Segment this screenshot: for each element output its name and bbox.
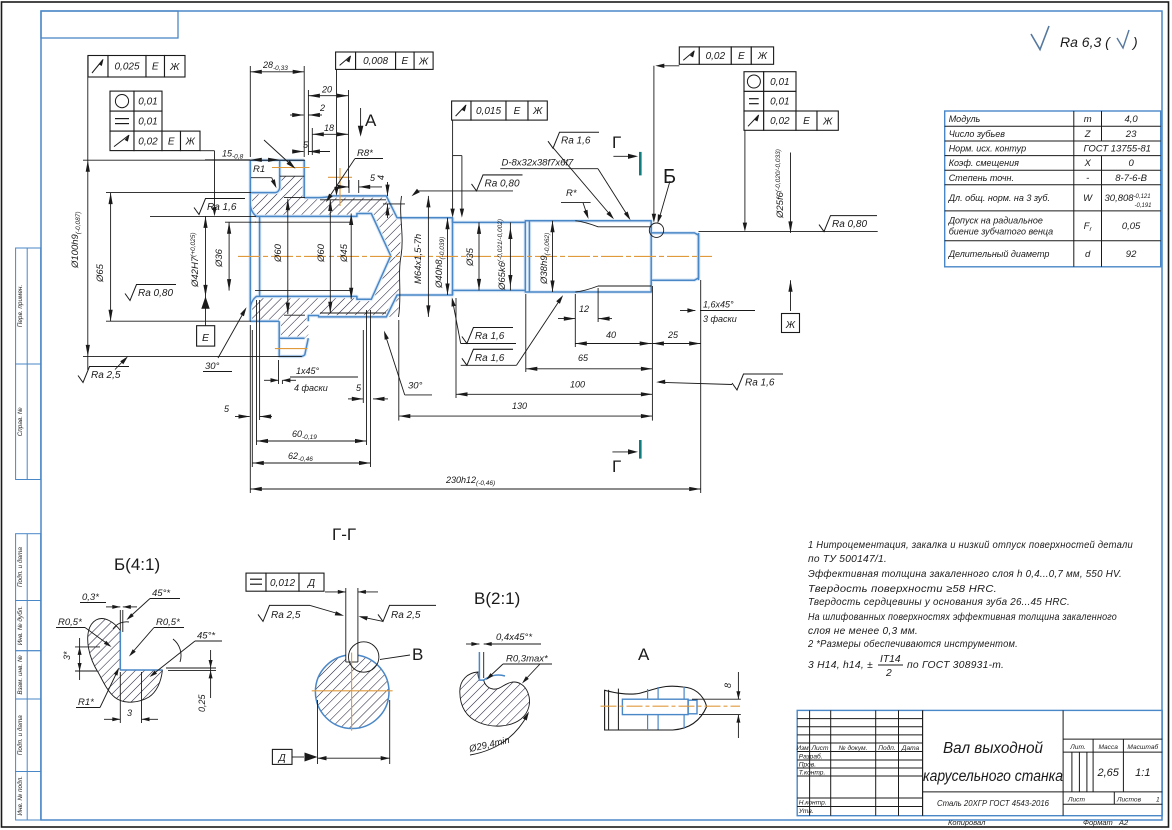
svg-text:На шлифованных поверхностях эф: На шлифованных поверхностях эффективная …	[808, 611, 1117, 623]
general roughness Ra 6,3	[1031, 26, 1049, 50]
svg-text:0,25: 0,25	[197, 693, 207, 712]
svg-text:Степень точн.: Степень точн.	[949, 173, 1014, 183]
leader stack2 to D38 bottom	[517, 298, 562, 366]
dim 4 thread step	[387, 182, 389, 196]
dim D60 first	[284, 197, 305, 199]
svg-text:А: А	[365, 111, 377, 130]
tolerance frame parallelism 0,01 right	[744, 91, 764, 111]
svg-text:Перв. примен.: Перв. примен.	[17, 285, 24, 327]
svg-text:X: X	[1083, 158, 1091, 169]
G-G Ra 2,5 right	[378, 605, 436, 621]
svg-text:В(2:1): В(2:1)	[474, 589, 520, 608]
svg-text:4,0: 4,0	[1124, 114, 1138, 125]
svg-text:23: 23	[1125, 129, 1137, 140]
V blob	[460, 672, 530, 726]
title block	[797, 710, 1162, 815]
dim D65	[110, 193, 112, 322]
svg-text:Ø60: Ø60	[316, 243, 327, 263]
inner D36 line bottom	[255, 290, 352, 292]
svg-text:Разраб.: Разраб.	[799, 753, 823, 761]
svg-text:2,65: 2,65	[1096, 767, 1119, 779]
dim 5 bore depth	[235, 416, 250, 418]
A keyway	[622, 699, 688, 714]
svg-text:биение зубчатого венца: биение зубчатого венца	[949, 226, 1054, 236]
svg-text:8-7-6-B: 8-7-6-B	[1115, 173, 1147, 184]
svg-text:12: 12	[579, 304, 589, 314]
dim D42H7 with datum E	[205, 216, 207, 325]
svg-text:0,01: 0,01	[770, 77, 789, 88]
svg-text:0,01: 0,01	[770, 97, 789, 108]
side stamp box Справ. №	[16, 364, 41, 480]
svg-text:3: 3	[127, 708, 132, 718]
tolerance frame runout 0,015 E	[452, 101, 471, 120]
svg-text:Модуль: Модуль	[949, 114, 981, 124]
svg-text:R8*: R8*	[357, 148, 373, 159]
G-G Ra 2,5 left	[258, 605, 310, 621]
svg-text:3 H14, h14, ±: 3 H14, h14, ±	[808, 660, 873, 671]
groove detail circle B	[649, 223, 663, 237]
svg-text:№ докум.: № докум.	[838, 744, 867, 752]
side stamp box Подп. и дата	[16, 534, 41, 601]
section mark G bottom	[639, 440, 642, 459]
svg-text:Ra 2,5: Ra 2,5	[271, 610, 301, 621]
svg-text:Б(4:1): Б(4:1)	[114, 555, 160, 574]
svg-text:30°: 30°	[408, 381, 423, 392]
dim 100	[455, 298, 457, 398]
svg-text:m: m	[1084, 114, 1092, 125]
svg-text:ГОСТ 13755-81: ГОСТ 13755-81	[1084, 144, 1151, 155]
svg-text:слоя не менее 0,3 мм.: слоя не менее 0,3 мм.	[808, 626, 918, 637]
svg-text:Д: Д	[278, 753, 286, 764]
inner D36 line top	[255, 221, 352, 223]
svg-text:Сталь 20ХГР ГОСТ 4543-2016: Сталь 20ХГР ГОСТ 4543-2016	[937, 798, 1049, 808]
svg-text:E: E	[514, 106, 521, 117]
dim 0,25	[166, 667, 216, 669]
dim 65	[525, 294, 527, 372]
svg-text:Ra 6,3 (: Ra 6,3 (	[1060, 34, 1111, 50]
svg-text:Т.контр.: Т.контр.	[799, 770, 826, 777]
svg-text:Ø35: Ø35	[465, 247, 476, 267]
svg-text:0,02: 0,02	[770, 116, 790, 127]
svg-text:R0,5*: R0,5*	[58, 617, 82, 628]
svg-text:Изм.: Изм.	[796, 745, 810, 752]
svg-text:Допуск на радиальное: Допуск на радиальное	[948, 215, 1043, 225]
svg-text:20: 20	[321, 85, 332, 95]
svg-text:Коэф. смещения: Коэф. смещения	[949, 158, 1019, 168]
dim 18	[311, 128, 313, 155]
dim D65k6	[509, 222, 511, 290]
svg-text:Вал выходной: Вал выходной	[943, 740, 1043, 757]
svg-text:W: W	[1083, 193, 1093, 204]
svg-text:R1*: R1*	[78, 697, 94, 708]
side stamp box Инв. № дубл.	[16, 601, 41, 651]
svg-text:Дл. общ. норм. на 3 зуб.: Дл. общ. норм. на 3 зуб.	[948, 193, 1050, 203]
G-G keyway slot	[346, 654, 358, 662]
svg-text:В: В	[412, 645, 423, 664]
svg-text:0,05: 0,05	[1122, 221, 1141, 232]
svg-text:Ж: Ж	[185, 136, 196, 147]
tolerance frame runout 0,02 E right2	[744, 111, 764, 130]
main axis centerline	[238, 255, 712, 257]
svg-text:65: 65	[578, 353, 589, 363]
svg-text:Эффективная толщина закаленног: Эффективная толщина закаленного слоя h 0…	[808, 568, 1122, 580]
roughness Ra080 M64	[472, 175, 523, 191]
spline root runout top	[575, 221, 651, 227]
gear rim right face top	[303, 160, 305, 197]
svg-text:R0,5*: R0,5*	[156, 617, 180, 628]
svg-text:R1: R1	[253, 164, 265, 175]
svg-text:3 фаски: 3 фаски	[703, 314, 737, 324]
svg-text:0,01: 0,01	[138, 97, 157, 108]
A outline	[605, 686, 707, 730]
dim 28-0.33	[249, 66, 251, 157]
tolerance frame roundness 0,01 right	[744, 72, 764, 92]
svg-text:Листов: Листов	[1116, 797, 1142, 804]
side stamp box Инв. № подл.	[16, 772, 41, 821]
svg-text:Подп. и дата: Подп. и дата	[16, 547, 24, 587]
svg-text:0,015: 0,015	[476, 106, 501, 117]
svg-text:1,6x45°: 1,6x45°	[703, 300, 734, 310]
detail B machined edges	[119, 630, 121, 670]
svg-text:Формат: Формат	[1083, 818, 1113, 827]
svg-text:0: 0	[1128, 158, 1134, 169]
svg-text:1:1: 1:1	[1135, 767, 1150, 779]
svg-text:Масштаб: Масштаб	[1127, 743, 1158, 751]
svg-text:Ra 0,80: Ra 0,80	[832, 219, 867, 230]
roughness Ra080 bore	[125, 285, 176, 301]
svg-text:d: d	[1085, 249, 1091, 260]
svg-text:Лит.: Лит.	[1069, 744, 1086, 751]
leader Ra16 mid	[554, 148, 613, 217]
svg-text:Г-Г: Г-Г	[332, 525, 356, 544]
svg-text:Лист: Лист	[811, 745, 829, 752]
dim 1,6x45 3 faski	[680, 310, 695, 312]
step faces D35/D38	[524, 222, 526, 290]
svg-text:Делительный диаметр: Делительный диаметр	[948, 249, 1050, 259]
svg-text:E: E	[202, 332, 210, 344]
dim 15-0.8	[205, 159, 250, 161]
svg-text:карусельного станка: карусельного станка	[923, 768, 1063, 785]
bore top line	[250, 205, 390, 255]
leader 0,02 frame	[658, 65, 679, 67]
svg-text:3*: 3*	[62, 651, 72, 660]
dim 5 thread relief	[348, 398, 363, 400]
svg-text:Ra 0,80: Ra 0,80	[485, 178, 520, 189]
svg-text:92: 92	[1126, 249, 1137, 260]
svg-text:30°: 30°	[205, 361, 220, 372]
svg-text:Копировал: Копировал	[948, 818, 986, 827]
svg-text:Ra 2,5: Ra 2,5	[391, 610, 421, 621]
V dim 0,4x45	[466, 643, 479, 645]
svg-text:E: E	[402, 56, 409, 67]
svg-text:0,3*: 0,3*	[82, 592, 99, 603]
side stamp box Перв. примен.	[16, 248, 41, 364]
top-left corner box	[41, 11, 178, 38]
leader from 0,01 block	[200, 150, 215, 152]
thread minor line bottom	[320, 312, 386, 314]
svg-text:А: А	[638, 645, 650, 664]
svg-text:R*: R*	[566, 188, 577, 199]
svg-text:Ra 0,80: Ra 0,80	[138, 288, 173, 299]
svg-text:Г: Г	[612, 457, 621, 476]
svg-text:Число зубьев: Число зубьев	[949, 129, 1006, 139]
svg-text:Утв.: Утв.	[798, 808, 814, 815]
svg-text:1 Нитроцементация, закалка и н: 1 Нитроцементация, закалка и низкий отпу…	[808, 540, 1133, 551]
dim 60-0.19	[256, 300, 258, 445]
svg-text:0,012: 0,012	[270, 578, 295, 589]
svg-text:Ж: Ж	[532, 106, 543, 117]
svg-text:Ra 1,6: Ra 1,6	[207, 202, 237, 213]
leader Ra25	[115, 359, 126, 370]
dim D60 second	[329, 200, 331, 314]
svg-text:25: 25	[667, 330, 679, 340]
leader Ra16 top-left to pitch line	[264, 140, 293, 167]
dim D45	[350, 214, 352, 300]
dim 0,3*	[106, 606, 120, 608]
svg-text:Ra 1,6: Ra 1,6	[475, 353, 505, 364]
svg-text:100: 100	[570, 380, 585, 390]
gear pitch line top	[272, 167, 310, 169]
leader 0,008 frame	[336, 69, 338, 192]
dim 230h12	[249, 325, 251, 493]
svg-text:1: 1	[1156, 797, 1160, 804]
G-G frame 0,012 D	[246, 573, 266, 591]
dim 130	[398, 320, 400, 421]
dim 20	[307, 90, 309, 155]
hatched upper wall of shaft section	[250, 176, 401, 256]
dim D25f6 with Zh box	[790, 153, 792, 233]
svg-text:Z: Z	[1084, 129, 1092, 140]
dim 25	[651, 343, 701, 345]
svg-text:Ra 2,5: Ra 2,5	[91, 370, 121, 381]
svg-text:2: 2	[885, 668, 892, 679]
dim 1x45 4 faski	[278, 360, 280, 384]
svg-text:M64x1,5-7h: M64x1,5-7h	[413, 234, 424, 284]
svg-text:IT14: IT14	[880, 654, 901, 665]
svg-text:8: 8	[723, 683, 733, 688]
leader right block	[744, 130, 746, 228]
section mark G top	[639, 152, 642, 176]
svg-text:по ТУ 500147/1.: по ТУ 500147/1.	[808, 554, 887, 565]
dim 5 thread top	[340, 186, 349, 188]
svg-text:Ж: Ж	[757, 51, 768, 62]
svg-text:130: 130	[512, 401, 527, 411]
gear root line top	[280, 175, 305, 177]
bore step D42/D36	[259, 216, 261, 296]
leader stack1 to D40 bottom	[453, 301, 461, 344]
dim 40	[575, 343, 651, 345]
svg-text:Г: Г	[612, 133, 621, 152]
svg-text:Ra 1,6: Ra 1,6	[475, 331, 505, 342]
step face spline end	[650, 227, 652, 286]
tolerance frame roundness 0,01	[110, 91, 134, 111]
svg-text:Ø45: Ø45	[339, 243, 350, 263]
svg-text:Ra 1,6: Ra 1,6	[745, 378, 775, 389]
svg-text:-: -	[1086, 173, 1089, 184]
roughness Ra25 left	[78, 367, 129, 383]
svg-text:Ж: Ж	[785, 320, 796, 331]
svg-text:0,02: 0,02	[138, 136, 158, 147]
svg-text:Ø65: Ø65	[95, 263, 106, 283]
dim D100h9	[87, 77, 89, 370]
svg-text:D-8x32x38f7x6f7: D-8x32x38f7x6f7	[502, 157, 575, 168]
thread minor line top	[320, 199, 386, 201]
svg-text:Твердость поверхности ≥58 HRC.: Твердость поверхности ≥58 HRC.	[808, 584, 997, 595]
tolerance frame runout 0,008 E	[336, 52, 356, 69]
svg-text:40: 40	[606, 330, 616, 340]
svg-text:Подп. и дата: Подп. и дата	[16, 715, 24, 755]
tolerance frame parallelism 0,01	[110, 111, 134, 131]
svg-text:Масса: Масса	[1098, 744, 1118, 751]
svg-text:Инв. № подл.: Инв. № подл.	[16, 776, 24, 816]
svg-text:E: E	[738, 51, 745, 62]
svg-text:Ø36: Ø36	[214, 248, 225, 268]
spline root runout bottom	[575, 286, 651, 292]
dim D35	[478, 222, 480, 290]
svg-text:по ГОСТ 308931-т.: по ГОСТ 308931-т.	[907, 660, 1004, 671]
dim 2	[290, 114, 304, 116]
A centerline	[601, 705, 741, 707]
svg-text:-0,191: -0,191	[1135, 203, 1152, 209]
dim 3 bottom	[119, 672, 121, 723]
left end face	[249, 160, 251, 321]
dim D40h8	[447, 218, 449, 295]
tolerance frame radial runout 0,025 E	[88, 56, 108, 78]
right end face	[698, 233, 700, 280]
svg-text:45°*: 45°*	[152, 588, 170, 599]
svg-text:Лист: Лист	[1067, 797, 1085, 804]
side stamp box Подп. и дата	[16, 699, 41, 772]
svg-text:18: 18	[324, 123, 334, 133]
svg-text:E: E	[803, 116, 810, 127]
G-G slot dim	[325, 591, 346, 593]
groove radius center cross	[328, 176, 352, 178]
side stamp box Взам. инв. №	[16, 651, 41, 699]
lower recess bottom (Ø65)	[250, 320, 279, 322]
gear recess bottom (Ø65) top	[250, 176, 279, 192]
svg-text:Д: Д	[307, 578, 315, 589]
G-G bottom dim datum D	[317, 700, 319, 764]
svg-text:Пров.: Пров.	[799, 762, 817, 769]
dim 5 top-left	[294, 151, 304, 153]
gear parameter table	[945, 111, 1161, 267]
svg-text:Норм. исх. контур: Норм. исх. контур	[949, 144, 1026, 154]
lower tooth block outline	[279, 321, 308, 356]
G-G main circle	[315, 655, 389, 729]
step face D40/D35	[452, 218, 454, 295]
svg-text:Н.контр.: Н.контр.	[799, 800, 827, 807]
svg-text:0,008: 0,008	[363, 56, 388, 67]
tooth end face edge	[279, 160, 281, 176]
dim 3*	[75, 646, 100, 648]
gear pitch line bottom	[275, 348, 308, 350]
leader 0,015 frame	[452, 120, 454, 214]
dim 12	[574, 294, 576, 347]
svg-text:Твердость сердцевины у основан: Твердость сердцевины у основания зуба 26…	[808, 596, 1070, 608]
svg-text:Инв. № дубл.: Инв. № дубл.	[16, 606, 24, 645]
A spline lines	[647, 689, 649, 699]
svg-text:2: 2	[319, 103, 325, 113]
roughness Ra16 stack2	[462, 349, 513, 365]
svg-text:1x45°: 1x45°	[296, 366, 320, 376]
svg-text:0,02: 0,02	[706, 51, 726, 62]
svg-text:Ø60: Ø60	[273, 243, 284, 263]
svg-text:4: 4	[376, 175, 386, 180]
svg-text:0,4x45°*: 0,4x45°*	[496, 632, 532, 643]
roughness Ra16 mid top	[548, 132, 599, 148]
svg-text:А2: А2	[1118, 818, 1129, 827]
bore bottom line	[250, 256, 390, 308]
svg-text:Справ. №: Справ. №	[17, 407, 24, 436]
G-G detail circle V	[349, 642, 379, 672]
svg-text:Ж: Ж	[169, 62, 180, 73]
dim 62-0.46	[251, 330, 253, 467]
groove bottom and M64 profile top	[304, 196, 698, 256]
hatched lower wall of shaft section	[250, 256, 400, 321]
svg-text:Ra 1,6: Ra 1,6	[561, 136, 591, 147]
G-G centerlines	[312, 690, 393, 692]
svg-text:E: E	[168, 136, 175, 147]
svg-text:2 *Размеры обеспечиваются инс: 2 *Размеры обеспечиваются инструментом.	[807, 638, 1018, 650]
svg-text:Ж: Ж	[418, 56, 429, 67]
svg-text:E: E	[152, 62, 159, 73]
svg-text:0,01: 0,01	[138, 117, 157, 128]
dim D38h9	[552, 221, 554, 292]
section break wavy line	[399, 196, 403, 317]
svg-text:Подп.: Подп.	[878, 744, 896, 752]
svg-text:Взам. инв. №: Взам. инв. №	[17, 655, 24, 695]
tolerance frame runout 0,02 E	[110, 131, 134, 151]
svg-text:45°*: 45°*	[197, 631, 215, 642]
dim D36	[228, 222, 230, 290]
detail B blob	[88, 619, 163, 703]
roughness Ra16 stack1	[462, 328, 513, 344]
svg-text:Дата: Дата	[901, 745, 920, 752]
gear rim tip line top	[250, 159, 304, 161]
roughness Ra080 D25	[819, 216, 877, 232]
svg-text:R0,3max*: R0,3max*	[506, 654, 548, 665]
roughness Ra16 bottom right	[732, 374, 783, 390]
svg-text:4 фаски: 4 фаски	[294, 383, 328, 393]
svg-text:0,025: 0,025	[114, 62, 139, 73]
A dim 8	[692, 698, 741, 700]
tolerance frame runout 0,02 E right	[679, 47, 699, 64]
view arrow A	[360, 108, 362, 132]
svg-text:Б: Б	[663, 166, 676, 188]
svg-text:Ж: Ж	[822, 116, 833, 127]
roughness Ra16 top-left	[194, 199, 245, 215]
hatched lower gear tooth block	[279, 321, 308, 338]
dim M64x1,5-7h	[427, 196, 429, 317]
